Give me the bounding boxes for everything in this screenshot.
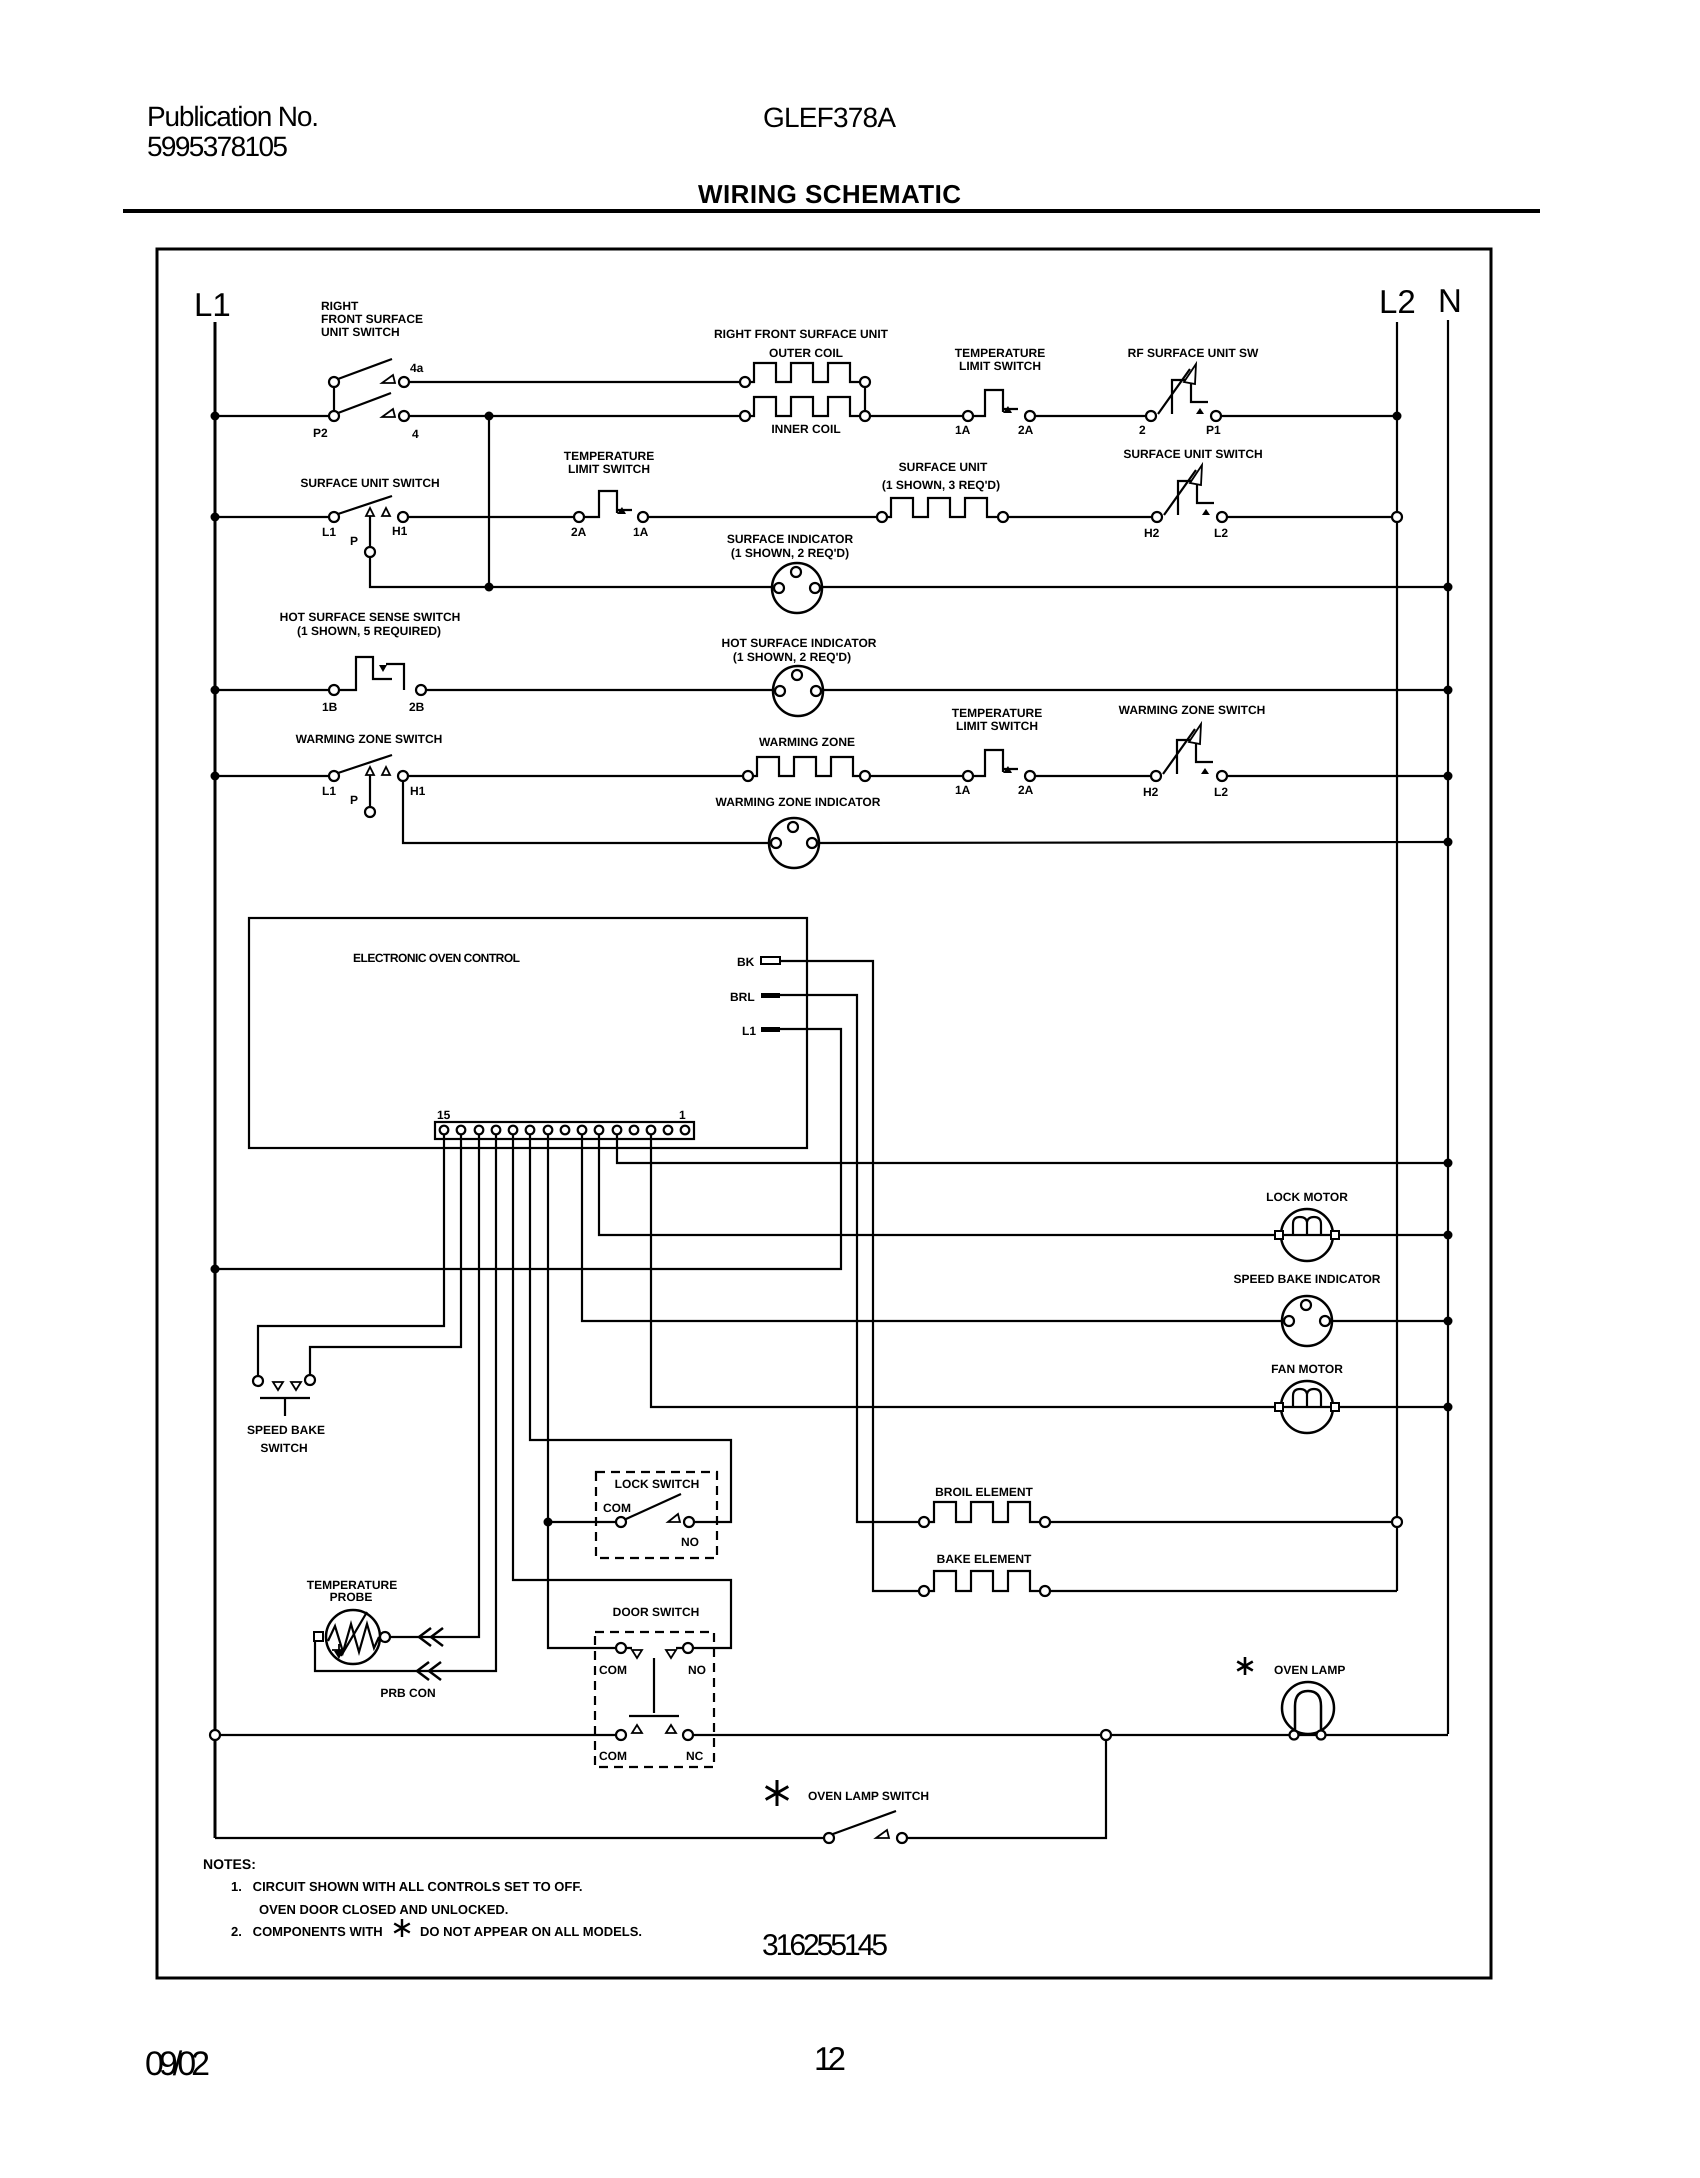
wire door NC to N with lamp (693, 1734, 1448, 1736)
wire pin7 to speed bake indicator (582, 1135, 1282, 1321)
pin 15 (440, 1126, 449, 1135)
wire lock motor to N (1339, 1234, 1448, 1236)
wire coil right tie (864, 387, 866, 411)
wire bottom row L1 to door COM (220, 1734, 616, 1736)
switch S1 upper right terminal 4a (399, 377, 409, 387)
pin 6 (595, 1126, 604, 1135)
svg-text:RIGHT: RIGHT (321, 299, 359, 313)
junction L1 row3 (211, 686, 220, 695)
lamp surface indicator body (772, 563, 822, 613)
wire lamp switch riser to lamp row (907, 1740, 1106, 1838)
svg-text:L1: L1 (742, 1024, 756, 1038)
pin 11 (509, 1126, 518, 1135)
wire pin13 to probe (390, 1135, 479, 1637)
connector chevron lower (417, 1662, 441, 1680)
svg-text:SWITCH: SWITCH (260, 1441, 307, 1455)
switch S2 temp limit body (973, 390, 1018, 416)
svg-text:WIRING SCHEMATIC: WIRING SCHEMATIC (698, 179, 961, 209)
junction open broil L2 (1392, 1517, 1402, 1527)
svg-text:4: 4 (412, 427, 419, 441)
svg-text:P1: P1 (1206, 423, 1221, 437)
svg-text:H1: H1 (392, 524, 408, 538)
svg-text:BROIL ELEMENT: BROIL ELEMENT (935, 1485, 1033, 1499)
terminal 2A row2 (574, 512, 584, 522)
resistor surface unit element (887, 498, 997, 517)
svg-text:OUTER COIL: OUTER COIL (769, 346, 843, 360)
terminal 2A row1 (1025, 411, 1035, 421)
wire row4 from L1 to switch (215, 775, 329, 777)
svg-text:UNIT SWITCH: UNIT SWITCH (321, 325, 400, 339)
wire L2 bus lower segment to bake element (1396, 1527, 1398, 1591)
switch S1 lower contact arrow (382, 409, 395, 417)
svg-text:LOCK SWITCH: LOCK SWITCH (615, 1477, 700, 1491)
svg-text:12: 12 (814, 2040, 846, 2077)
svg-text:LIMIT SWITCH: LIMIT SWITCH (959, 359, 1041, 373)
junction open L1 bottom row (210, 1730, 220, 1740)
terminal L2 row4 (1217, 771, 1227, 781)
resistor broil element body (929, 1502, 1040, 1522)
switch S2 contact arrow (1003, 406, 1012, 413)
junction indicator return x489 (485, 583, 494, 592)
wire pin10 to lock switch NO (530, 1135, 731, 1522)
junction open lamp switch riser (1101, 1730, 1111, 1740)
svg-text:HOT SURFACE INDICATOR: HOT SURFACE INDICATOR (722, 636, 877, 650)
terminal warming zone left (743, 771, 753, 781)
svg-text:TEMPERATURE: TEMPERATURE (952, 706, 1042, 720)
wire pin12 to probe return (315, 1135, 496, 1671)
wire L1 pin to L1 bus (215, 1029, 841, 1269)
svg-text:P: P (350, 534, 358, 548)
wire warming switch to N (1227, 775, 1448, 777)
wire BRL to broil element (780, 995, 919, 1522)
terminal lock motor left (1275, 1231, 1283, 1239)
terminal outer coil left (740, 377, 750, 387)
lamp oven lamp filament arch (1295, 1691, 1321, 1732)
svg-text:2: 2 (1139, 423, 1146, 437)
border frame (157, 249, 1491, 1978)
switch S7 contact arrow (379, 665, 387, 672)
terminal door upper NO (683, 1643, 693, 1653)
switch S10 arrow head (1189, 724, 1201, 744)
wire lock COM stub (548, 1521, 616, 1523)
pin 8 (561, 1126, 570, 1135)
switch S10 infinite switch symbol (1163, 729, 1213, 774)
svg-text:BAKE ELEMENT: BAKE ELEMENT (937, 1552, 1032, 1566)
connector chevron upper (419, 1628, 443, 1646)
svg-text:L1: L1 (194, 286, 231, 323)
svg-text:H2: H2 (1144, 526, 1160, 540)
thermistor RT1 plus mark (332, 1644, 345, 1657)
terminal broil right (1040, 1517, 1050, 1527)
svg-text:COM: COM (599, 1663, 627, 1677)
pin 5 (613, 1126, 622, 1135)
wire row1 main from L1 to switch (215, 415, 329, 417)
switch S1 pole tie (333, 387, 335, 411)
resistor inner coil element (750, 397, 860, 416)
junction N lock motor row (1444, 1231, 1453, 1240)
terminal door lower NC (683, 1730, 693, 1740)
IC U1 electronic oven control box (249, 918, 807, 1148)
terminal lock NO (684, 1517, 694, 1527)
svg-text:NOTES:: NOTES: (203, 1856, 256, 1872)
wire pin14 to speed bake switch (310, 1135, 461, 1375)
lamp hot surface indicator body (773, 666, 823, 716)
thermistor RT1 zigzag (328, 1624, 379, 1652)
switch S1 upper pole blade (338, 359, 392, 379)
wire coils to temp limit switch (870, 415, 963, 417)
switch S8 blade (338, 755, 392, 773)
pin 2 (664, 1126, 673, 1135)
svg-text:(1 SHOWN, 2 REQ'D): (1 SHOWN, 2 REQ'D) (733, 650, 851, 664)
terminal lamp switch left (824, 1833, 834, 1843)
switch S3 arrow head (1184, 364, 1196, 384)
junction N fan motor row (1444, 1403, 1453, 1412)
svg-text:SURFACE UNIT SWITCH: SURFACE UNIT SWITCH (1123, 447, 1262, 461)
lamp speed bake indicator body (1282, 1296, 1332, 1346)
note 2 asterisk (394, 1919, 410, 1937)
junction L1 row4 (211, 772, 220, 781)
svg-text:WARMING ZONE SWITCH: WARMING ZONE SWITCH (296, 732, 443, 746)
svg-text:1. CIRCUIT SHOWN WITH ALL CO: 1. CIRCUIT SHOWN WITH ALL CONTROLS SET T… (231, 1879, 582, 1894)
wire junction drop to indicator return (488, 416, 490, 587)
svg-text:SURFACE UNIT SWITCH: SURFACE UNIT SWITCH (300, 476, 439, 490)
junction N pin5 row (1444, 1159, 1453, 1168)
terminal bake left (919, 1586, 929, 1596)
wire temp limit to surface unit coil (648, 516, 877, 518)
svg-text:SURFACE INDICATOR: SURFACE INDICATOR (727, 532, 854, 546)
svg-text:SURFACE UNIT: SURFACE UNIT (899, 460, 988, 474)
pin 1 (681, 1126, 690, 1135)
svg-text:L2: L2 (1379, 283, 1416, 320)
terminal fan motor right (1331, 1403, 1339, 1411)
resistor warming zone element (753, 757, 863, 776)
switch S5 contact arrow (617, 507, 626, 514)
junction N warming zone row (1444, 772, 1453, 781)
svg-text:LIMIT SWITCH: LIMIT SWITCH (568, 462, 650, 476)
svg-text:PRB CON: PRB CON (380, 1686, 435, 1700)
switch S8 right terminal H1 (398, 771, 408, 781)
pin 3 (647, 1126, 656, 1135)
terminal 1A row2 (638, 512, 648, 522)
switch S1 upper contact arrow (382, 375, 395, 383)
terminal warming zone right (860, 771, 870, 781)
svg-text:GLEF378A: GLEF378A (763, 102, 896, 133)
switch S1 upper left terminal (329, 377, 339, 387)
wire fan motor to N (1339, 1406, 1448, 1408)
svg-text:(1 SHOWN, 3 REQ'D): (1 SHOWN, 3 REQ'D) (882, 478, 1000, 492)
switch S3 infinite switch symbol (1158, 369, 1208, 414)
svg-text:DOOR SWITCH: DOOR SWITCH (613, 1605, 700, 1619)
pin 14 (457, 1126, 466, 1135)
wire row3 from L1 to sense switch (215, 689, 329, 691)
title rule (123, 209, 1540, 213)
wire bake to L2 (1050, 1590, 1397, 1592)
terminal probe left square (314, 1632, 323, 1641)
terminal probe right (380, 1632, 390, 1642)
wire row2 switch to temp limit (408, 516, 574, 518)
wire sense switch to hot surface indicator (426, 689, 773, 691)
terminal door lower COM (616, 1730, 626, 1740)
svg-text:L2: L2 (1214, 785, 1228, 799)
switch S13 lower contact arrows (632, 1725, 642, 1733)
pin 12 (492, 1126, 501, 1135)
wire surface unit to switch (1008, 516, 1152, 518)
switch S4 P arrow (366, 508, 374, 516)
wire pin11 to door switch NO (513, 1135, 731, 1648)
svg-text:H1: H1 (410, 784, 426, 798)
svg-text:BRL: BRL (730, 990, 755, 1004)
svg-text:RIGHT FRONT SURFACE UNIT: RIGHT FRONT SURFACE UNIT (714, 327, 889, 341)
svg-text:(1 SHOWN, 2 REQ'D): (1 SHOWN, 2 REQ'D) (731, 546, 849, 560)
wire switch to L2 bus (1227, 516, 1392, 518)
terminal inner coil left (740, 411, 750, 421)
junction pin9 lock COM (544, 1518, 553, 1527)
terminal P circle row4 (365, 807, 375, 817)
wire P terminal drop (370, 516, 489, 587)
switch S13 door switch dashed box (595, 1632, 714, 1767)
svg-text:FAN MOTOR: FAN MOTOR (1271, 1362, 1343, 1376)
junction N hot surface row (1444, 686, 1453, 695)
terminal lock COM (616, 1517, 626, 1527)
switch S12 contact arrow (668, 1514, 680, 1522)
switch S9 contact arrow (1003, 766, 1012, 773)
switch S4 left terminal L1 (329, 512, 339, 522)
svg-text:SPEED BAKE: SPEED BAKE (247, 1423, 325, 1437)
pin 7 (578, 1126, 587, 1135)
svg-text:L2: L2 (1214, 526, 1228, 540)
terminal broil left (919, 1517, 929, 1527)
svg-text:PROBE: PROBE (330, 1590, 373, 1604)
wire indicator return to surface indicator (489, 586, 772, 588)
wire temp limit to rf switch (1035, 415, 1146, 417)
wire pin5 to N (617, 1135, 1448, 1163)
terminal 1A row1 (963, 411, 973, 421)
wire lower pole to inner coil (409, 415, 740, 417)
junction N surface indicator return (1444, 583, 1453, 592)
switch S12 blade (626, 1494, 681, 1519)
switch S4 blade (338, 496, 392, 514)
svg-text:1A: 1A (955, 783, 971, 797)
svg-text:FRONT SURFACE: FRONT SURFACE (321, 312, 423, 326)
svg-text:ELECTRONIC OVEN CONTROL: ELECTRONIC OVEN CONTROL (353, 951, 520, 965)
svg-text:P: P (350, 793, 358, 807)
svg-text:L1: L1 (322, 784, 336, 798)
svg-text:Publication No.: Publication No. (147, 101, 319, 132)
wire upper pole to outer coil (409, 381, 740, 383)
switch S14 blade (833, 1811, 896, 1834)
wire L1 bus vertical (214, 322, 217, 1838)
wire row4 switch to warming zone coil (408, 775, 743, 777)
switch S8 H1 arrow (382, 767, 390, 775)
svg-text:COM: COM (603, 1501, 631, 1515)
junction L1 row2 (211, 513, 220, 522)
svg-text:TEMPERATURE: TEMPERATURE (564, 449, 654, 463)
svg-text:5995378105: 5995378105 (147, 131, 288, 162)
thermistor RT1 arrow (341, 1612, 367, 1656)
svg-text:2. COMPONENTS WITH: 2. COMPONENTS WITH (231, 1924, 383, 1939)
svg-text:316255145: 316255145 (762, 1929, 888, 1962)
wire door upper gap (626, 1647, 683, 1649)
junction N warming indicator return (1444, 838, 1453, 847)
terminal fan motor left (1275, 1403, 1283, 1411)
terminal H2 row4 (1151, 771, 1161, 781)
svg-text:P2: P2 (313, 426, 328, 440)
svg-text:SPEED BAKE INDICATOR: SPEED BAKE INDICATOR (1234, 1272, 1381, 1286)
pin 10 (526, 1126, 535, 1135)
svg-text:15: 15 (437, 1108, 451, 1122)
terminal door upper COM (616, 1643, 626, 1653)
svg-text:INNER COIL: INNER COIL (771, 422, 840, 436)
terminal lock motor right (1331, 1231, 1339, 1239)
svg-text:COM: COM (599, 1749, 627, 1763)
motor M1 winding (1281, 1217, 1333, 1235)
junction N speed bake indicator row (1444, 1317, 1453, 1326)
svg-text:2B: 2B (409, 700, 425, 714)
svg-text:H2: H2 (1143, 785, 1159, 799)
terminal 1A row4 (963, 771, 973, 781)
connector J1 strip (435, 1122, 694, 1139)
wire surface indicator to N (822, 586, 1448, 588)
terminal P1 rf switch (1211, 411, 1221, 421)
svg-text:1: 1 (679, 1108, 686, 1122)
switch S3 contact mark (1196, 408, 1204, 414)
wire hot surface indicator to N (823, 689, 1448, 691)
svg-text:TEMPERATURE: TEMPERATURE (955, 346, 1045, 360)
svg-text:LOCK MOTOR: LOCK MOTOR (1266, 1190, 1348, 1204)
switch S11 actuator bar (260, 1398, 310, 1416)
svg-text:OVEN LAMP: OVEN LAMP (1274, 1663, 1345, 1677)
pin L1 terminal (761, 1027, 780, 1032)
switch S8 P arrow (366, 767, 374, 775)
motor M1 body (1281, 1209, 1333, 1261)
switch S4 right terminal H1 (398, 512, 408, 522)
terminal H2 row2 (1152, 512, 1162, 522)
terminal L2 row2 (1217, 512, 1227, 522)
junction L1 EOC L1 wire (211, 1265, 220, 1274)
svg-text:RF SURFACE UNIT SW: RF SURFACE UNIT SW (1128, 346, 1259, 360)
svg-text:WARMING ZONE INDICATOR: WARMING ZONE INDICATOR (716, 795, 881, 809)
switch S11 speed bake switch terminals (253, 1376, 263, 1386)
switch S14 oven lamp switch asterisk (766, 1780, 789, 1806)
wire speed bake indicator to N (1332, 1320, 1448, 1322)
svg-text:09/02: 09/02 (145, 2045, 210, 2083)
switch S6 arrow head (1190, 465, 1202, 485)
wire BK to bake element (780, 961, 919, 1591)
motor M2 winding (1281, 1389, 1333, 1407)
wire warming indicator to N (819, 842, 1448, 843)
switch S6 infinite switch symbol (1164, 470, 1214, 515)
svg-text:OVEN DOOR CLOSED AND UNLOCKED.: OVEN DOOR CLOSED AND UNLOCKED. (259, 1902, 508, 1917)
terminal oven lamp right (1317, 1731, 1326, 1740)
terminal inner coil right (860, 411, 870, 421)
terminal 2B (416, 685, 426, 695)
switch S13 upper contact arrows (632, 1650, 642, 1658)
svg-text:DO NOT APPEAR ON ALL MODELS.: DO NOT APPEAR ON ALL MODELS. (420, 1924, 642, 1939)
wire rf switch to L2 (1221, 415, 1397, 417)
pin 13 (475, 1126, 484, 1135)
svg-text:NC: NC (686, 1749, 704, 1763)
svg-text:1B: 1B (322, 700, 338, 714)
svg-text:NO: NO (688, 1663, 706, 1677)
wire P terminal stub row4 (369, 775, 371, 807)
wire H1 drop to warming indicator (403, 781, 769, 843)
lamp warming zone indicator body (769, 818, 819, 868)
switch S10 contact mark (1201, 768, 1209, 774)
switch S1 lower right terminal 4 (399, 411, 409, 421)
svg-text:2A: 2A (571, 525, 587, 539)
switch S1 lower left terminal P2 (329, 411, 339, 421)
junction L1 row1 (211, 412, 220, 421)
svg-text:HOT SURFACE SENSE SWITCH: HOT SURFACE SENSE SWITCH (280, 610, 461, 624)
terminal oven lamp left (1290, 1731, 1299, 1740)
pin BRL terminal (761, 993, 780, 998)
svg-text:WARMING ZONE: WARMING ZONE (759, 735, 855, 749)
terminal lamp switch right (897, 1833, 907, 1843)
svg-text:2A: 2A (1018, 783, 1034, 797)
lamp oven lamp asterisk (1237, 1657, 1253, 1675)
switch S9 temp limit body (973, 750, 1018, 776)
switch S11 contact arrows (273, 1382, 283, 1390)
wire temp limit to warming zone switch (1035, 775, 1151, 777)
pin BK terminal (761, 957, 780, 964)
svg-text:1A: 1A (955, 423, 971, 437)
wire pin6 to lock motor (599, 1135, 1281, 1235)
resistor outer coil element (750, 363, 860, 382)
terminal 2A row4 (1025, 771, 1035, 781)
svg-text:4a: 4a (410, 361, 424, 375)
pin 9 (544, 1126, 553, 1135)
switch S4 H1 arrow (382, 508, 390, 516)
motor M2 body (1281, 1381, 1333, 1433)
wire warming zone coil to temp limit (870, 775, 963, 777)
switch S12 lock switch dashed box (596, 1472, 717, 1558)
switch S14 contact arrow (876, 1830, 889, 1838)
resistor bake element body (929, 1571, 1040, 1591)
terminal 2 rf switch (1146, 411, 1156, 421)
svg-text:1A: 1A (633, 525, 649, 539)
switch S1 lower pole blade (338, 393, 391, 413)
switch S5 temp limit body (584, 491, 632, 517)
svg-text:LIMIT SWITCH: LIMIT SWITCH (956, 719, 1038, 733)
wire L2 bus vertical (1396, 322, 1398, 1522)
lamp oven lamp body (1282, 1682, 1334, 1734)
svg-text:BK: BK (737, 955, 755, 969)
wire row2 from L1 to switch (215, 516, 329, 518)
switch S13 actuator tee (629, 1658, 679, 1716)
switch S6 contact mark (1202, 509, 1210, 515)
thermistor RT1 body (326, 1610, 380, 1664)
terminal P circle row2 (365, 547, 375, 557)
switch S8 left terminal L1 (329, 771, 339, 781)
junction open L2 row2 (1392, 512, 1402, 522)
junction L2 row1 (1393, 412, 1402, 421)
svg-text:OVEN LAMP SWITCH: OVEN LAMP SWITCH (808, 1789, 929, 1803)
svg-text:NO: NO (681, 1535, 699, 1549)
terminal bake right (1040, 1586, 1050, 1596)
svg-text:(1 SHOWN, 5 REQUIRED): (1 SHOWN, 5 REQUIRED) (297, 624, 441, 638)
terminal outer coil right (860, 377, 870, 387)
wire N bus vertical (1447, 320, 1449, 1734)
terminal 1B (329, 685, 339, 695)
terminal surface unit left (877, 512, 887, 522)
wire broil to L2 (1050, 1521, 1392, 1523)
wire pin9 to lock COM and door COM (548, 1135, 616, 1648)
wire pin3 to fan motor (651, 1135, 1281, 1407)
junction row1 at x489 (485, 412, 494, 421)
svg-text:L1: L1 (322, 525, 336, 539)
wire bottom L1 to lamp switch (215, 1837, 824, 1839)
svg-text:2A: 2A (1018, 423, 1034, 437)
